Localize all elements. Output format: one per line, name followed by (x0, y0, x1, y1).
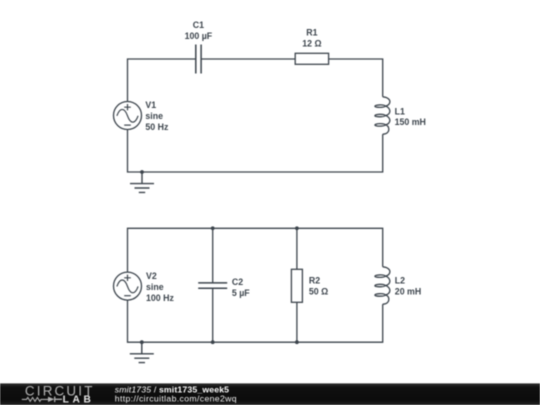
svg-text:http://circuitlab.com/cene2wq: http://circuitlab.com/cene2wq (115, 393, 237, 403)
svg-text:R1: R1 (306, 27, 317, 37)
svg-text:L2: L2 (395, 276, 405, 286)
svg-text:V1: V1 (145, 100, 156, 110)
svg-text:C1: C1 (193, 20, 204, 30)
svg-text:50 Ω: 50 Ω (309, 286, 328, 296)
svg-text:100 Hz: 100 Hz (146, 293, 174, 303)
svg-text:12 Ω: 12 Ω (302, 38, 321, 48)
svg-text:20 mH: 20 mH (395, 286, 421, 296)
svg-text:50 Hz: 50 Hz (145, 122, 169, 132)
svg-text:R2: R2 (309, 276, 320, 286)
svg-text:LAB: LAB (63, 394, 91, 405)
svg-text:V2: V2 (146, 271, 157, 281)
svg-text:150 mH: 150 mH (395, 117, 426, 127)
svg-text:5 µF: 5 µF (232, 288, 250, 298)
svg-text:C2: C2 (232, 277, 243, 287)
svg-text:sine: sine (145, 111, 163, 121)
svg-text:sine: sine (146, 282, 164, 292)
svg-text:100 µF: 100 µF (185, 31, 213, 41)
svg-text:L1: L1 (395, 106, 405, 116)
